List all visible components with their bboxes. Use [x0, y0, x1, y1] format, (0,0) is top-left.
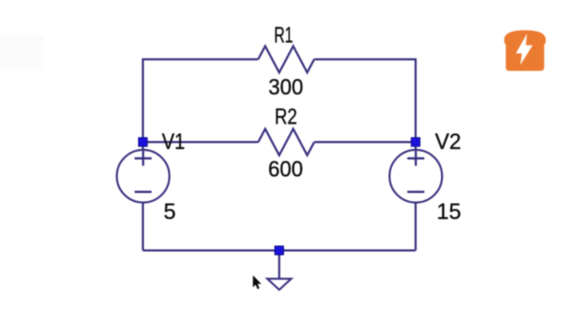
node GND (junction square): [275, 246, 284, 255]
resistor R2: [258, 129, 314, 155]
wire: right rail V2 node down to bottom rail: [415, 142, 417, 250]
svg-text:600: 600: [268, 157, 303, 182]
node V1 (junction square): [139, 138, 148, 147]
svg-text:300: 300: [268, 75, 303, 100]
resistor R1: [258, 46, 314, 72]
CircuitLab toast logo: [504, 30, 546, 71]
V1 plus mark: [135, 151, 152, 166]
voltage source V1 (circle body): [117, 150, 170, 203]
ground stub wire: [278, 250, 280, 278]
wire: left rail (V1 node up to top-left corner, across to R1): [143, 59, 258, 142]
svg-text:5: 5: [164, 199, 176, 224]
V1 minus mark: [135, 191, 152, 193]
ground symbol: [267, 279, 291, 290]
V2 plus mark: [407, 151, 424, 166]
svg-text:V1: V1: [162, 130, 185, 155]
wire: middle rail V1 node to R2: [143, 141, 258, 143]
wire: bottom rail: [143, 249, 416, 251]
svg-text:R1: R1: [274, 22, 293, 47]
voltage source V2 (circle body): [390, 150, 443, 203]
svg-text:V2: V2: [435, 129, 461, 154]
svg-text:R2: R2: [275, 105, 297, 129]
wire: middle rail R2 to V2 node: [314, 141, 415, 143]
node V2 (junction square): [411, 138, 420, 147]
wire: left rail V1 node down to bottom rail: [142, 142, 144, 250]
V2 minus mark: [407, 191, 424, 193]
svg-text:15: 15: [437, 199, 461, 224]
faint panel edge top-left: [0, 35, 44, 73]
mouse cursor: [253, 275, 261, 289]
wire: top rail right segment down to V2 node: [314, 59, 415, 142]
